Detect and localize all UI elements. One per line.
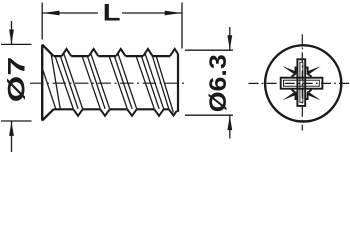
- wire: L dimension line left segment: [42, 12, 98, 14]
- wire: Ø6.3 top extension line: [185, 49, 233, 51]
- wire: Ø7 top extension line: [1, 43, 32, 45]
- thread top crest 2: [89, 49, 98, 56]
- thread bottom crest 1: [73, 109, 82, 116]
- pozidriv recess outer cross: vertical slot: [297, 59, 305, 106]
- svg-text:Ø7: Ø7: [4, 57, 31, 103]
- L dimension right arrowhead: [165, 11, 182, 16]
- wire: L dimension right extension line: [181, 3, 183, 49]
- wire: side view centerline (dash-dot axis): [30, 82, 187, 84]
- thread bottom crest 5 (partial at tip): [169, 109, 177, 115]
- Ø7 bottom arrowhead: [9, 121, 14, 135]
- head end view: outer circle: [265, 45, 341, 121]
- pozidriv recess shoulder NE: [305, 67, 311, 77]
- thread bottom crest 2: [100, 109, 109, 116]
- thread top crest 4: [143, 49, 152, 56]
- screw head bottom taper: [42, 109, 53, 120]
- thread top crest 3: [116, 49, 125, 56]
- wire: Ø7 lower dimension line: [11, 121, 13, 152]
- thread top crest 5: [170, 49, 178, 56]
- thread helix lines group 5 (at tip): [152, 56, 173, 112]
- thread top crest 1: [62, 49, 71, 56]
- pozidriv tick SW: [282, 92, 295, 100]
- thread root line top: [54, 55, 171, 57]
- thread bottom crest 4: [154, 109, 163, 116]
- svg-text:L: L: [103, 0, 121, 26]
- svg-text:Ø6.3: Ø6.3: [205, 54, 232, 112]
- wire: Ø6.3 upper dimension line: [229, 27, 231, 50]
- wire: Ø7 upper dimension line: [11, 21, 13, 44]
- thread helix lines group 1: [55, 53, 83, 109]
- wire: Ø6.3 lower dimension line: [229, 115, 231, 138]
- pozidriv recess shoulder NW: [292, 67, 298, 77]
- pozidriv tick SE: [308, 92, 321, 100]
- screw head top taper: [42, 45, 53, 57]
- pozidriv recess shoulder SE: [305, 89, 311, 99]
- wire: L dimension left extension line: [41, 3, 43, 40]
- end view vertical centerline: [301, 34, 303, 130]
- wire: Ø7 bottom extension line: [1, 120, 32, 122]
- thread helix lines group 3: [109, 53, 137, 109]
- screw head left edge (flat face): [41, 45, 43, 121]
- thread helix lines group 2: [82, 53, 110, 109]
- pozidriv recess shoulder SW: [292, 89, 298, 99]
- pozidriv recess outer cross: horizontal slot: [281, 78, 323, 89]
- pozidriv recess inner cross: horizontal slot: [284, 80, 320, 86]
- Ø6.3 bottom arrowhead: [227, 116, 232, 131]
- screw end face: [177, 54, 178, 111]
- Ø7 top arrowhead: [9, 30, 14, 45]
- Ø6.3 top arrowhead: [227, 35, 232, 50]
- end view horizontal centerline: [249, 82, 350, 84]
- thread root line bottom: [54, 108, 169, 110]
- pozidriv recess inner cross: vertical slot: [300, 62, 303, 102]
- thread bottom crest 3: [127, 109, 136, 116]
- thread helix lines group 0 (at head taper): [43, 54, 61, 109]
- pozidriv tick NE: [308, 66, 321, 74]
- pozidriv tick NW: [282, 66, 295, 74]
- thread helix lines group 4: [136, 53, 164, 109]
- wire: L dimension line right segment: [122, 12, 182, 14]
- L dimension left arrowhead: [43, 11, 60, 16]
- wire: Ø6.3 bottom extension line: [185, 114, 233, 116]
